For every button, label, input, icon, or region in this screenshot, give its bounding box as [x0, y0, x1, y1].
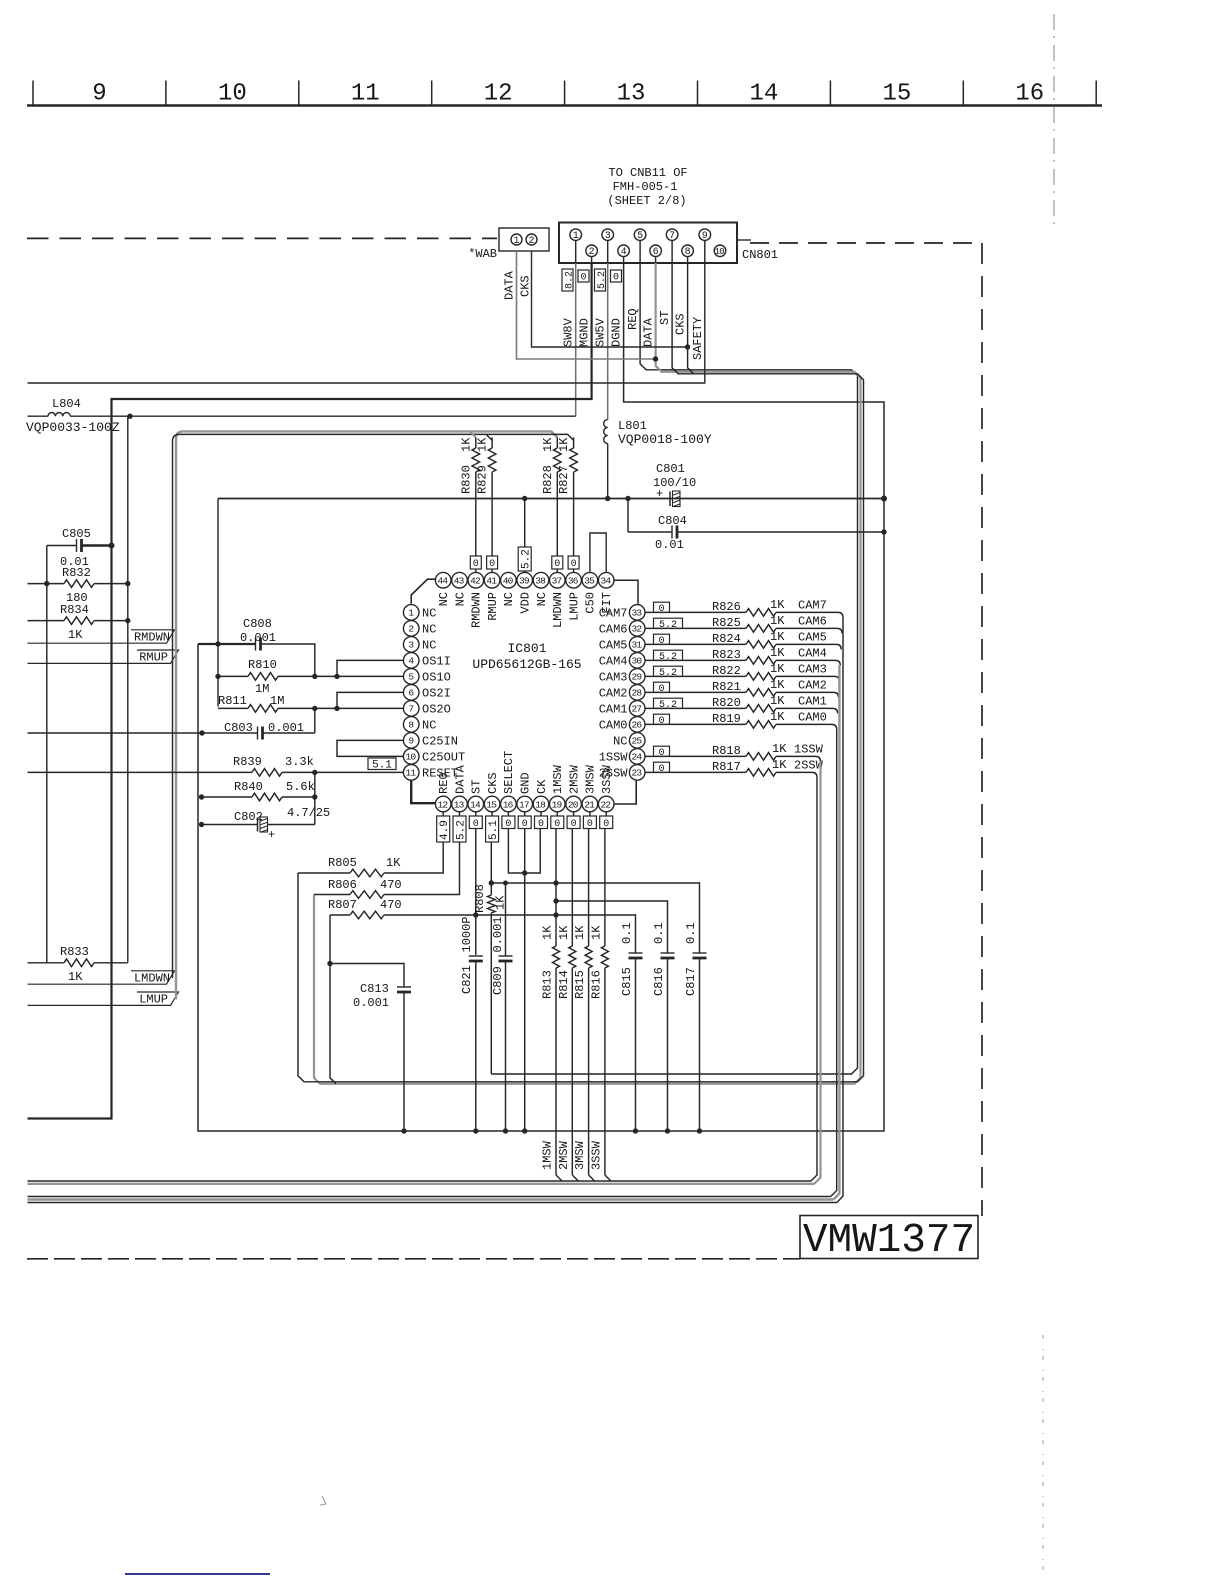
- svg-text:14: 14: [470, 799, 481, 810]
- svg-text:SW8V: SW8V: [562, 317, 576, 347]
- svg-text:10: 10: [405, 752, 416, 763]
- svg-text:1K: 1K: [68, 628, 83, 642]
- svg-text:1K: 1K: [557, 925, 571, 940]
- junction pin6/pin7: [334, 706, 339, 711]
- svg-text:5.2: 5.2: [659, 700, 677, 711]
- resistor R815 + wire 3MSW column: [588, 829, 590, 946]
- svg-text:1K: 1K: [68, 970, 83, 984]
- svg-text:24: 24: [631, 752, 642, 763]
- svg-text:R815: R815: [573, 970, 587, 999]
- svg-text:33: 33: [631, 608, 642, 619]
- voltage box 0 (pin22): [600, 816, 613, 829]
- svg-text:5.1: 5.1: [372, 759, 392, 771]
- wire pin9-pin10 loop: [337, 740, 403, 756]
- svg-text:1K: 1K: [770, 646, 785, 660]
- resistor R818 row (1SSW): [645, 755, 746, 757]
- voltage box 0 (pin19): [551, 816, 564, 829]
- wire left rail x=46.8: [46, 546, 48, 963]
- svg-text:RMDWN: RMDWN: [134, 631, 170, 645]
- svg-text:CAM1: CAM1: [599, 702, 628, 716]
- wire/flag LMDWN: [28, 971, 175, 984]
- *WAB pin circles: [511, 234, 522, 245]
- svg-text:+: +: [268, 828, 275, 842]
- capacitor C815: [629, 952, 643, 954]
- svg-text:DATA: DATA: [503, 270, 517, 300]
- svg-text:LMDWN: LMDWN: [134, 972, 170, 986]
- svg-text:CAM7: CAM7: [599, 606, 628, 620]
- svg-text:C25IN: C25IN: [422, 734, 458, 748]
- svg-text:IC801: IC801: [507, 641, 546, 656]
- svg-text:0: 0: [505, 819, 511, 830]
- svg-text:1K: 1K: [770, 662, 785, 676]
- dashed border top-right segment: [750, 242, 982, 244]
- capacitor C801 (electrolytic): [669, 492, 671, 507]
- svg-text:R827: R827: [557, 465, 571, 494]
- svg-text:12: 12: [484, 81, 513, 108]
- svg-text:0.001: 0.001: [268, 721, 304, 735]
- svg-text:5.2: 5.2: [521, 549, 533, 569]
- wire R811 right down to C803: [314, 708, 316, 733]
- resistor R808 below pin15 junction: [490, 883, 492, 895]
- svg-text:0: 0: [473, 819, 479, 830]
- svg-text:7: 7: [408, 704, 414, 715]
- svg-text:9: 9: [92, 81, 106, 108]
- wire pin15 column / junction with CKS cross line: [490, 842, 492, 883]
- junction pin15 / cross line y883: [489, 880, 494, 885]
- wire CN801 pin stub: [639, 240, 641, 263]
- svg-text:RESET: RESET: [422, 766, 458, 780]
- svg-text:0: 0: [658, 604, 664, 615]
- connector *WAB box: [499, 228, 549, 251]
- svg-text:1K: 1K: [770, 694, 785, 708]
- svg-text:R823: R823: [712, 648, 741, 662]
- voltage box 0 (MGND): [578, 270, 589, 282]
- resistor R834: [28, 620, 65, 622]
- svg-text:13: 13: [617, 81, 646, 108]
- svg-text:TO CNB11 OF: TO CNB11 OF: [608, 166, 687, 180]
- svg-text:1: 1: [408, 608, 414, 619]
- svg-text:R810: R810: [248, 658, 277, 672]
- svg-text:1K: 1K: [770, 710, 785, 724]
- svg-text:1K: 1K: [476, 437, 490, 452]
- svg-text:37: 37: [552, 576, 562, 587]
- svg-text:R813: R813: [541, 970, 555, 999]
- svg-text:C802: C802: [234, 810, 263, 824]
- wire CN801 pin stub: [591, 257, 593, 264]
- wire band D dark top (CAM highway): [28, 1196, 831, 1198]
- svg-text:1SSW: 1SSW: [794, 742, 824, 756]
- wire CN801 pin stub: [575, 240, 577, 263]
- svg-text:3MSW: 3MSW: [573, 1140, 587, 1170]
- wire CAM bundle vertical gray: [833, 665, 839, 1199]
- svg-text:R822: R822: [712, 664, 741, 678]
- svg-text:NC: NC: [422, 606, 436, 620]
- voltage box 0 (pin41): [487, 556, 498, 569]
- svg-text:CKS: CKS: [486, 772, 500, 794]
- resistor R840: [202, 796, 253, 798]
- svg-text:21: 21: [584, 799, 595, 810]
- svg-text:0.1: 0.1: [652, 922, 666, 944]
- svg-text:0: 0: [658, 636, 664, 647]
- svg-text:0.001: 0.001: [353, 996, 389, 1010]
- svg-text:1: 1: [573, 231, 579, 242]
- wire MGND: CN801 pin2 down, west, down trunk to bottom left: [28, 263, 592, 1119]
- junction R810 left: [215, 674, 220, 679]
- svg-text:C816: C816: [652, 967, 666, 996]
- wire bundle vertical (RMUP/LMUP) gray: [176, 431, 557, 999]
- svg-text:CAM3: CAM3: [798, 662, 827, 676]
- svg-text:NC: NC: [453, 592, 467, 606]
- svg-text:11: 11: [351, 81, 380, 108]
- svg-text:3: 3: [605, 231, 611, 242]
- svg-text:C804: C804: [658, 514, 687, 528]
- svg-text:RMUP: RMUP: [139, 651, 168, 665]
- junction L804 line / left rail: [127, 414, 132, 419]
- junction C804 tap / rail: [625, 496, 630, 501]
- voltage box 5.1 (RESET): [368, 758, 396, 770]
- svg-text:5.2: 5.2: [659, 620, 677, 631]
- svg-text:CAM5: CAM5: [798, 630, 827, 644]
- svg-text:R816: R816: [589, 970, 603, 999]
- svg-text:R833: R833: [60, 945, 89, 959]
- svg-text:R808: R808: [473, 884, 487, 913]
- svg-text:NC: NC: [422, 718, 436, 732]
- svg-text:SW5V: SW5V: [594, 317, 608, 347]
- wire L804 rail down to R833: [127, 416, 129, 963]
- svg-text:LMUP: LMUP: [139, 993, 168, 1007]
- wire SSW pair vertical dark: [811, 777, 817, 1181]
- svg-text:R818: R818: [712, 744, 741, 758]
- svg-text:CAM7: CAM7: [798, 598, 827, 612]
- svg-text:1K: 1K: [386, 856, 401, 870]
- resistor R830: [475, 437, 477, 448]
- wire VDD pin39 up to rail: [524, 499, 526, 548]
- svg-text:CKS: CKS: [674, 313, 688, 335]
- svg-text:6: 6: [653, 247, 659, 258]
- svg-text:0: 0: [522, 819, 528, 830]
- svg-text:26: 26: [631, 720, 642, 731]
- svg-text:OS2O: OS2O: [422, 702, 451, 716]
- svg-text:CAM5: CAM5: [599, 638, 628, 652]
- svg-text:1K: 1K: [459, 437, 473, 452]
- wire/flag LMUP: [28, 992, 179, 1005]
- svg-text:2: 2: [408, 624, 414, 635]
- wire bundle vertical (RMDWN/LMDWN) dark: [173, 434, 574, 978]
- svg-text:0: 0: [554, 819, 560, 830]
- top ruler baseline: [27, 104, 1102, 107]
- wire band C dark (SSW/MSW highway): [28, 1180, 812, 1182]
- svg-text:C805: C805: [62, 527, 91, 541]
- voltage box 0 (pin21): [583, 816, 596, 829]
- svg-text:R829: R829: [476, 465, 490, 494]
- svg-text:0: 0: [580, 273, 586, 284]
- resistor R819 row (CAM0): [645, 723, 746, 725]
- wire pin35-pin34 loop (C50): [590, 533, 606, 572]
- IC801 right pin column (33..23): [629, 605, 645, 621]
- svg-text:NC: NC: [422, 622, 436, 636]
- svg-text:17: 17: [519, 799, 529, 810]
- svg-text:15: 15: [882, 81, 911, 108]
- wire pin4 to pin5 line: [337, 660, 403, 676]
- scan mark right faint broken vertical: [1042, 1335, 1044, 1578]
- wire CKS chamfer joining bundle: [688, 263, 694, 374]
- svg-text:5.2: 5.2: [659, 668, 677, 679]
- svg-text:R819: R819: [712, 712, 741, 726]
- svg-text:R826: R826: [712, 600, 741, 614]
- wire *WAB DATA down then east to DATA wire: [517, 251, 656, 359]
- svg-text:19: 19: [552, 799, 563, 810]
- wire pins16/17/18 joined to ground: [508, 829, 540, 873]
- svg-text:8: 8: [685, 247, 691, 258]
- svg-text:C821: C821: [460, 965, 474, 994]
- svg-text:0: 0: [587, 819, 593, 830]
- svg-text:R839: R839: [233, 755, 262, 769]
- svg-text:18: 18: [535, 799, 546, 810]
- svg-text:DATA: DATA: [642, 317, 656, 347]
- junction y901 / MSW column: [553, 898, 558, 903]
- scan mark top right dash-dot vertical: [1053, 14, 1055, 228]
- wire band D dark bottom: [28, 1202, 838, 1204]
- resistor R807 + wire to pin14 column: [350, 911, 384, 919]
- svg-text:10: 10: [715, 247, 725, 257]
- junction y915 / MSW column: [553, 912, 558, 917]
- voltage box 5.2 (pin39): [518, 547, 531, 571]
- svg-text:27: 27: [631, 704, 641, 715]
- resistor R825 row (CAM6): [645, 627, 746, 629]
- resistor R806 + wire to pin13: [384, 842, 460, 895]
- wire branch chamfer to R829 column: [486, 434, 492, 440]
- svg-text:14: 14: [750, 81, 779, 108]
- svg-text:R817: R817: [712, 760, 741, 774]
- resistor R814 + wire 2MSW column: [571, 829, 573, 946]
- svg-text:0: 0: [658, 716, 664, 727]
- wire pin34-pin33 link (FIT to CAM7): [615, 580, 639, 604]
- svg-text:C813: C813: [360, 982, 389, 996]
- wire/flag RMDWN: [28, 630, 175, 643]
- svg-text:REQ: REQ: [626, 308, 640, 330]
- svg-text:SELECT: SELECT: [502, 751, 516, 794]
- svg-text:3: 3: [408, 640, 414, 651]
- scan mark bottom left blue line: [125, 1573, 270, 1575]
- svg-text:ST: ST: [470, 780, 484, 794]
- wire CAM bundle vertical dark inner: [831, 729, 837, 1196]
- wire cross line y915 extension to C815: [476, 915, 636, 953]
- svg-text:R834: R834: [60, 603, 89, 617]
- svg-text:CAM1: CAM1: [798, 694, 827, 708]
- svg-text:NC: NC: [422, 638, 436, 652]
- svg-text:31: 31: [631, 640, 642, 651]
- svg-text:C815: C815: [620, 967, 634, 996]
- svg-text:+: +: [656, 487, 663, 501]
- resistor R810: [218, 675, 248, 677]
- svg-text:0: 0: [571, 559, 577, 570]
- resistor R829: [491, 437, 493, 448]
- svg-text:R811: R811: [218, 694, 247, 708]
- capacitor C817: [693, 952, 707, 954]
- svg-text:SAFETY: SAFETY: [691, 317, 705, 360]
- svg-text:5.1: 5.1: [488, 820, 500, 840]
- svg-text:1MSW: 1MSW: [541, 1140, 555, 1170]
- wire cross line y901 to C816: [556, 901, 668, 953]
- wire REQ bundle (REQ/DATA/ST/CKS) from CN801 east then down right side, returning along bottom to R805-R807 columns: [491, 263, 857, 1074]
- svg-text:5.2: 5.2: [455, 820, 467, 840]
- wire R807 column chamfer onto gray return line: [330, 915, 336, 1084]
- junction CKS / *WAB CKS: [685, 344, 690, 349]
- voltage box 8.2 (SW8V): [562, 269, 573, 291]
- junction pin4/pin5: [334, 674, 339, 679]
- svg-text:R807: R807: [328, 898, 357, 912]
- junction R807 / pin14 column: [473, 912, 478, 917]
- connector CN801 stub to border: [737, 239, 751, 241]
- svg-text:L801: L801: [618, 419, 647, 433]
- voltage box 0 (pin37): [552, 556, 563, 569]
- junction R832 / left rail: [44, 581, 49, 586]
- capacitor C803: [28, 732, 258, 734]
- svg-text:5.2: 5.2: [659, 652, 677, 663]
- svg-text:1M: 1M: [270, 694, 284, 708]
- voltage box 0 (pin42): [470, 556, 481, 569]
- wire cross line y883 (pin15 to C817): [491, 883, 699, 953]
- svg-text:C809: C809: [491, 966, 505, 995]
- resistor R820 row (CAM1): [645, 707, 746, 709]
- junction C821 / ground bus: [473, 1128, 478, 1133]
- svg-text:R825: R825: [712, 616, 741, 630]
- junction R811 right / C803: [312, 706, 317, 711]
- wire SAFETY: CN801 pin9 down then west to sheet edge: [28, 263, 705, 383]
- svg-text:4: 4: [408, 656, 414, 667]
- svg-text:23: 23: [631, 768, 642, 779]
- svg-text:4: 4: [621, 247, 627, 258]
- svg-text:R805: R805: [328, 856, 357, 870]
- svg-text:0: 0: [603, 819, 609, 830]
- wire pin14 column down through C821 to ground bus: [475, 829, 477, 955]
- capacitor C802 (electrolytic): [202, 824, 258, 826]
- IC801 left pin column (1..11): [403, 605, 419, 621]
- svg-text:CAM6: CAM6: [798, 614, 827, 628]
- svg-text:2MSW: 2MSW: [567, 764, 581, 794]
- resistor R824 row (CAM5): [645, 643, 746, 645]
- wire SW8V: CN801 pin1 down, west through L804 to sheet edge: [575, 263, 577, 416]
- svg-text:ST: ST: [658, 311, 672, 325]
- svg-text:CN801: CN801: [742, 248, 778, 262]
- voltage box 4.9 (pin12): [437, 816, 450, 842]
- svg-text:CKS: CKS: [519, 275, 533, 297]
- svg-text:VQP0033-100Z: VQP0033-100Z: [26, 420, 120, 435]
- svg-text:C808: C808: [243, 617, 272, 631]
- svg-text:NC: NC: [437, 592, 451, 606]
- svg-text:2: 2: [528, 236, 534, 247]
- junction C808 line / +rail drop: [215, 641, 220, 646]
- dashed border bottom segment: [27, 1258, 800, 1260]
- svg-text:20: 20: [568, 799, 579, 810]
- svg-text:RMDWN: RMDWN: [470, 592, 484, 628]
- svg-text:3MSW: 3MSW: [584, 764, 598, 794]
- svg-text:MGND: MGND: [578, 318, 592, 347]
- junction C802 / ground rail: [199, 822, 204, 827]
- svg-text:0: 0: [613, 273, 619, 284]
- wire SSW pair vertical gray: [815, 761, 821, 1183]
- svg-text:R830: R830: [459, 465, 473, 494]
- svg-text:NC: NC: [613, 734, 627, 748]
- svg-text:GND: GND: [519, 772, 533, 794]
- junction C813 / R807 column: [327, 961, 332, 966]
- inductor L801: [604, 420, 608, 444]
- voltage box 0 (pin18): [535, 816, 548, 829]
- svg-text:470: 470: [380, 878, 402, 892]
- svg-text:CAM6: CAM6: [599, 622, 628, 636]
- resistor R817 row (2SSW): [645, 771, 746, 773]
- voltage box 5.2 (SW5V): [595, 269, 606, 291]
- resistor R832: [28, 583, 65, 585]
- svg-text:1MSW: 1MSW: [551, 764, 565, 794]
- voltage box 0 (DGND): [611, 270, 622, 282]
- svg-text:39: 39: [519, 576, 530, 587]
- svg-text:12: 12: [437, 799, 448, 810]
- svg-text:44: 44: [437, 576, 448, 587]
- svg-text:28: 28: [631, 688, 642, 699]
- svg-text:1: 1: [513, 236, 519, 247]
- svg-text:8.2: 8.2: [564, 271, 575, 289]
- svg-text:1M: 1M: [255, 682, 269, 696]
- svg-text:30: 30: [631, 656, 642, 667]
- connector CN801 box: [559, 223, 737, 264]
- svg-text:OS1O: OS1O: [422, 670, 451, 684]
- resistor R823 row (CAM4): [645, 659, 746, 661]
- svg-text:VQP0018-100Y: VQP0018-100Y: [618, 432, 712, 447]
- svg-text:L804: L804: [52, 397, 81, 411]
- VMW1377 title box: [800, 1216, 978, 1259]
- capacitor C804: [627, 499, 629, 533]
- wire ST of bundle: [298, 263, 864, 1082]
- svg-text:1K: 1K: [770, 598, 785, 612]
- capacitor C816: [661, 952, 675, 954]
- resistor R813 + wire 1MSW column: [555, 829, 557, 946]
- svg-text:0.1: 0.1: [620, 922, 634, 944]
- svg-text:VMW1377: VMW1377: [803, 1218, 975, 1264]
- junction C813 / ground bus: [401, 1128, 406, 1133]
- junction R840 left / ground rail: [199, 794, 204, 799]
- svg-text:1K: 1K: [589, 925, 603, 940]
- svg-text:32: 32: [631, 624, 642, 635]
- wire *WAB CKS down then east to CKS wire: [532, 251, 688, 347]
- svg-text:1K: 1K: [541, 925, 555, 940]
- wire DATA (gray) of bundle: [314, 263, 861, 1084]
- voltage box 5.1 (pin15): [486, 816, 499, 842]
- svg-text:1K: 1K: [573, 925, 587, 940]
- svg-text:9: 9: [702, 231, 708, 242]
- svg-text:25: 25: [631, 736, 642, 747]
- voltage box 0 (pin16): [502, 816, 515, 829]
- resistor R821 row (CAM2): [645, 691, 746, 693]
- svg-text:2: 2: [589, 247, 595, 258]
- svg-text:5.6k: 5.6k: [286, 780, 315, 794]
- resistor R828: [556, 437, 558, 448]
- svg-text:0: 0: [473, 559, 479, 570]
- svg-text:R821: R821: [712, 680, 741, 694]
- wire CAM bundle vertical dark outer: [837, 617, 843, 1202]
- svg-text:1K: 1K: [772, 758, 787, 772]
- svg-text:0: 0: [489, 559, 495, 570]
- svg-text:C801: C801: [656, 462, 685, 476]
- junction VDD / rail: [522, 496, 527, 501]
- svg-text:UPD65612GB-165: UPD65612GB-165: [472, 657, 581, 672]
- svg-text:2MSW: 2MSW: [557, 1140, 571, 1170]
- inductor L804: [48, 413, 70, 417]
- wire CN801 pin stub: [655, 257, 657, 264]
- svg-text:C803: C803: [224, 721, 253, 735]
- svg-text:R832: R832: [62, 566, 91, 580]
- wire DGND: CN801 pin4 down, east, down right rail, west along ground bus, up to C808 rail: [198, 263, 884, 1131]
